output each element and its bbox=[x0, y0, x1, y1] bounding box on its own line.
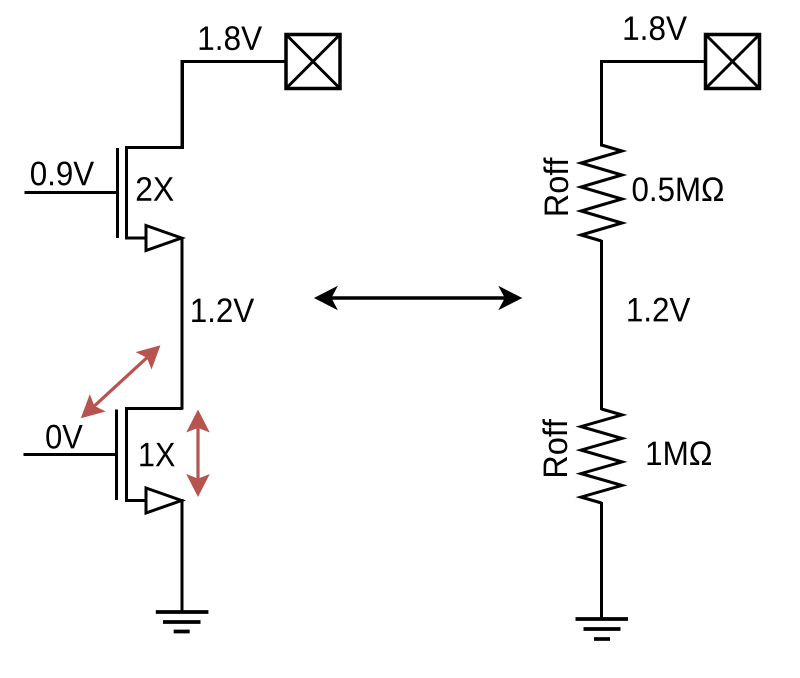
wire: node 1.2V vertical (right) bbox=[600, 240, 603, 410]
wire: gate input 0V bbox=[24, 453, 116, 456]
pad X1 (1.8V supply pin, left) bbox=[286, 35, 340, 89]
label 0.9V bbox=[31, 161, 94, 185]
label 0V bbox=[46, 425, 82, 449]
equivalence double-headed arrow bbox=[314, 286, 522, 310]
label 1X bbox=[140, 443, 174, 466]
wire: R2 to ground bbox=[600, 502, 603, 619]
annotation: red vertical double arrow across M1 bbox=[186, 410, 210, 498]
annotation: red diagonal double arrow bbox=[81, 345, 161, 418]
pad X2 (1.8V supply pin, right) bbox=[706, 35, 760, 89]
label net 1.8V (left) bbox=[200, 26, 262, 50]
wire: gate input 0.9V bbox=[25, 191, 117, 194]
wire: 1.8V rail left (horizontal + vertical drop) bbox=[182, 62, 286, 150]
label 2X bbox=[137, 177, 174, 201]
wire: source of M1 down to ground bbox=[181, 499, 184, 612]
label Roff (R1) bbox=[543, 158, 568, 215]
ground (left) bbox=[156, 612, 209, 632]
label net 1.8V (right) bbox=[625, 16, 687, 40]
value 0.5M ohm bbox=[633, 177, 723, 201]
wire: 1.8V rail right (horizontal + vertical drop) bbox=[602, 62, 706, 147]
transistor M2 (2X) bbox=[118, 60, 183, 251]
label net 1.2V (right) bbox=[628, 298, 690, 322]
resistor R2 Roff 1M bbox=[581, 409, 622, 503]
wire: node 1.2V vertical (left) bbox=[181, 237, 184, 410]
ground (right) bbox=[576, 619, 629, 639]
transistor M1 (1X) bbox=[117, 408, 183, 514]
label Roff (R2) bbox=[542, 419, 567, 476]
resistor R1 Roff 0.5M bbox=[581, 145, 622, 241]
label net 1.2V (left) bbox=[192, 298, 254, 322]
value 1M ohm bbox=[647, 441, 711, 465]
